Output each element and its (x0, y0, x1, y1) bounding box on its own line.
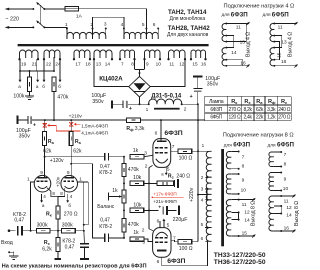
filter choke L1 Д31-5-0,14 (148, 103, 150, 105)
svg-text:14: 14 (231, 50, 237, 56)
cathode wire V1 (47, 188, 58, 197)
wire tap23 down to bus (53, 57, 55, 71)
wire choke to +220 bus (182, 103, 198, 105)
transformer T1 primary winding 1-3 (66, 29, 68, 40)
transformer T1 secondary winding 13-14 (94, 50, 112, 58)
resistor 1k grid stopper top (130, 155, 144, 159)
svg-text:1: 1 (202, 143, 205, 148)
svg-text:10k: 10k (133, 202, 142, 208)
transformer T1 secondary winding 11-12 (169, 50, 186, 58)
svg-text:0,47: 0,47 (100, 218, 110, 224)
wire cap to grid node (21, 230, 36, 232)
svg-text:22k: 22k (256, 115, 264, 121)
svg-text:6Ф3П: 6Ф3П (167, 258, 185, 265)
svg-text:16: 16 (240, 60, 246, 66)
svg-text:7: 7 (173, 236, 176, 242)
fuse FU1 1A (65, 6, 79, 11)
OPT secondary winding 11-15 (226, 200, 231, 236)
OPT secondary winding 9-10 (226, 174, 231, 194)
svg-text:для: для (268, 142, 276, 147)
svg-text:к: к (50, 213, 52, 217)
resistor 470k grid leak bottom (122, 219, 126, 232)
svg-text:2: 2 (142, 228, 145, 234)
svg-text:6: 6 (201, 236, 204, 241)
8ohm diagram for 6F5P winding 9-10 (269, 173, 274, 191)
wire tap22 down (43, 59, 45, 71)
transformer T1 secondary winding 22-24 (44, 50, 60, 58)
svg-text:300k: 300k (37, 222, 48, 228)
svg-text:22: 22 (46, 62, 52, 67)
svg-text:4: 4 (70, 194, 73, 199)
svg-text:11: 11 (242, 202, 247, 208)
svg-text:+17v-6Ф3П: +17v-6Ф3П (153, 192, 177, 197)
svg-text:12: 12 (179, 62, 185, 67)
triode V1 (left triode) anode bar (38, 177, 48, 179)
svg-text:350v: 350v (207, 82, 219, 88)
svg-text:9: 9 (40, 170, 43, 176)
svg-text:6Ф5П: 6Ф5П (272, 11, 289, 18)
svg-text:а: а (42, 203, 45, 208)
svg-text:10k: 10k (133, 175, 142, 181)
svg-text:15: 15 (192, 62, 198, 67)
svg-text:с: с (285, 100, 288, 105)
OPT primary winding sections (206, 151, 211, 177)
coupling capacitor 0,47 К78-2 channel 1 (104, 153, 106, 161)
svg-text:х: х (248, 100, 251, 105)
svg-text:с: с (172, 176, 174, 180)
svg-text:3: 3 (104, 22, 107, 28)
svg-text:+: + (158, 205, 161, 210)
svg-text:0,47: 0,47 (65, 245, 75, 251)
OPT secondary strap 12-14 (238, 212, 240, 219)
resistor Rx 6,2k (57, 231, 59, 238)
heater point arrow a mid (37, 71, 39, 80)
svg-text:17: 17 (75, 62, 81, 67)
svg-text:Выход 8 Ω: Выход 8 Ω (251, 201, 257, 226)
svg-text:470k: 470k (128, 222, 139, 228)
svg-text:4: 4 (201, 198, 204, 203)
svg-text:Вход: Вход (1, 240, 13, 246)
current test mark X1 red (43, 124, 47, 128)
capacitor 100uF 350v (second filter) (197, 77, 199, 88)
pentode V4 pin6 bottom return wire to OPT tap 6 (162, 241, 208, 265)
pentode V3 6Ф3П envelope (top) (153, 139, 171, 168)
svg-text:1A: 1A (76, 14, 83, 20)
capacitor 100uF 350v (first filter) (112, 103, 123, 105)
svg-text:+21v-6Ф5П: +21v-6Ф5П (153, 199, 177, 204)
svg-text:350v: 350v (19, 133, 31, 139)
svg-text:+: + (33, 123, 36, 129)
chassis bar for second 100uF cap (193, 75, 203, 77)
svg-text:270 Ω: 270 Ω (229, 107, 242, 113)
pentode V3 pin 5 heater arrow (165, 167, 167, 173)
svg-text:5: 5 (167, 223, 170, 229)
svg-text:11: 11 (236, 25, 241, 31)
svg-text:220µF: 220µF (173, 217, 188, 223)
svg-text:8: 8 (284, 161, 287, 167)
svg-text:6,2k: 6,2k (42, 246, 52, 252)
svg-text:для: для (263, 12, 271, 17)
capacitor 100uF 350v (after Rf) (18, 119, 28, 121)
resistor Rc 240 with marks (157, 181, 173, 185)
svg-text:1k: 1k (112, 188, 118, 194)
svg-text:5: 5 (167, 166, 170, 172)
heater bus wire (20, 70, 54, 72)
8ohm diagram for 6F5P winding 11-16 (269, 196, 274, 231)
svg-text:6Ф3П: 6Ф3П (210, 107, 222, 113)
svg-text:Выход 4 Ω: Выход 4 Ω (288, 32, 294, 57)
+220 bus vertical (197, 104, 199, 242)
svg-text:3,3k: 3,3k (267, 107, 276, 113)
svg-text:240 Ω: 240 Ω (176, 174, 190, 180)
chassis bar for third 100uF cap (17, 116, 19, 124)
svg-text:270 Ω: 270 Ω (278, 115, 291, 121)
resistor Ra2 62k (70, 120, 72, 132)
pentode V4 6Ф3П envelope (bottom) (153, 228, 171, 258)
svg-text:12: 12 (286, 205, 292, 211)
svg-text:б: б (58, 84, 61, 89)
pentode V4 grid dashes (155, 237, 158, 239)
svg-text:12: 12 (244, 210, 250, 216)
transformer T1 secondary winding 7-8 (120, 50, 135, 58)
svg-text:7: 7 (284, 152, 287, 158)
svg-text:9: 9 (284, 176, 287, 182)
svg-text:16: 16 (281, 59, 287, 65)
red current arrow path to X1 (49, 124, 56, 126)
transformer T1 primary taps dots (66, 28, 68, 30)
svg-text:10: 10 (156, 62, 162, 67)
svg-text:9: 9 (146, 62, 149, 67)
pentode V3 cathode arc (156, 159, 168, 163)
svg-text:2: 2 (201, 175, 204, 180)
4ohm diagram for 6F5P (270, 24, 274, 42)
pentode V3 pin6 wire to rail (160, 120, 162, 141)
pentode V4 pin7 and 100ohm anode resistor (171, 240, 178, 242)
transformer T1 primary winding 4-6 (123, 29, 125, 40)
pentode V3 screen and grid dashes (155, 147, 158, 149)
svg-text:62k: 62k (73, 148, 82, 154)
svg-text:б: б (42, 84, 45, 89)
resistor 300k second (62, 229, 76, 233)
svg-text:14: 14 (105, 62, 111, 67)
svg-text:11: 11 (169, 62, 174, 67)
svg-text:13: 13 (240, 40, 246, 46)
svg-text:8: 8 (52, 191, 55, 196)
wire tap12 to bridge right (150, 59, 185, 86)
transformer T1 secondary winding 15-16 (191, 50, 206, 58)
svg-text:62k: 62k (256, 107, 264, 113)
svg-text:19: 19 (21, 62, 27, 67)
svg-text:1,5mA-6Ф3П: 1,5mA-6Ф3П (81, 123, 108, 128)
input capacitor К78-2 0,47 (17, 226, 19, 236)
resistor 10k upper (130, 181, 144, 185)
svg-text:18: 18 (85, 62, 91, 67)
svg-text:1,2k: 1,2k (267, 115, 276, 121)
svg-text:14: 14 (244, 218, 250, 224)
svg-text:10: 10 (241, 188, 247, 194)
svg-text:х: х (48, 242, 51, 246)
4ohm diagram for 6F3P (222, 24, 226, 42)
grid wire V2 up (77, 182, 83, 231)
resistor 300k first (37, 229, 51, 233)
svg-text:16: 16 (201, 62, 207, 67)
wire tap13 to bridge (94, 59, 129, 86)
svg-text:15: 15 (242, 231, 248, 237)
transformer T1 secondary winding 19-21 (20, 50, 39, 58)
wire Ra1 to triode V1 anode (44, 146, 46, 178)
ground below 100k (29, 91, 31, 95)
svg-text:2: 2 (145, 164, 148, 170)
svg-text:10: 10 (283, 186, 289, 192)
transformer T1 core bar (18, 44, 209, 46)
pentode V4 pin6 top stub (159, 221, 161, 228)
svg-text:+20v: +20v (56, 176, 61, 187)
svg-text:120 Ω: 120 Ω (229, 115, 242, 121)
svg-text:9: 9 (67, 170, 70, 176)
resistor 470k grid leak top (123, 157, 125, 164)
svg-text:4: 4 (121, 22, 124, 28)
svg-text:11: 11 (278, 25, 283, 31)
pentode V4 pin5 heater arrow up (163, 220, 165, 227)
wire cap to bridge node (128, 103, 149, 105)
svg-text:+220v: +220v (189, 187, 195, 202)
grid wire V1 up (31, 182, 35, 231)
svg-text:7: 7 (172, 144, 175, 150)
wire Rf to +220 bus (141, 119, 205, 121)
svg-text:Д31-5-0,14: Д31-5-0,14 (151, 93, 182, 99)
svg-text:470k: 470k (57, 95, 68, 101)
triode V1 (left triode) cathode arc (38, 186, 47, 188)
svg-text:3: 3 (144, 151, 147, 157)
svg-text:1k: 1k (133, 230, 139, 236)
center node dot (50, 230, 62, 232)
svg-text:2: 2 (184, 106, 187, 112)
svg-text:4,1mA-6Ф5П: 4,1mA-6Ф5П (81, 130, 108, 135)
svg-text:1k: 1k (133, 148, 139, 154)
mains wire bottom with arrow (8, 26, 33, 28)
pentode V4 anode bar (157, 250, 167, 252)
svg-text:Выход 4 Ω: Выход 4 Ω (246, 32, 252, 57)
transformer T1 secondary winding 9-10 (145, 50, 161, 58)
svg-text:7: 7 (242, 154, 245, 160)
svg-text:а: а (18, 84, 21, 89)
svg-text:а: а (79, 141, 82, 145)
grid network second wire (84, 181, 88, 183)
chassis bar for first 100uF cap (111, 100, 113, 108)
svg-text:13: 13 (96, 62, 102, 67)
svg-text:Выход 8 Ω: Выход 8 Ω (294, 201, 300, 226)
svg-text:7: 7 (121, 62, 124, 67)
svg-text:6Ф5П: 6Ф5П (210, 115, 222, 121)
svg-text:5: 5 (201, 222, 204, 227)
pentode V3 pin7 and 100ohm anode resistor (171, 150, 179, 152)
svg-text:а: а (161, 172, 164, 177)
balance pot 1k (122, 190, 126, 203)
triode V1 (left triode) heater pin 4 arrow (41, 194, 43, 201)
signal wire channel 2 down (71, 164, 105, 238)
svg-text:300k: 300k (62, 222, 73, 228)
node to V2 grid (75, 230, 84, 232)
OPT secondary winding 7-8 (226, 152, 231, 169)
svg-text:15: 15 (277, 52, 283, 58)
red voltage label +17v (152, 197, 154, 199)
resistor 100k heater divider (29, 71, 31, 77)
bridge rectifier VD1 КЦ402А (129, 76, 151, 97)
wire +220 to OPT center taps (198, 194, 207, 196)
svg-text:для: для (222, 12, 230, 17)
svg-text:6Ф3П: 6Ф3П (164, 130, 182, 137)
svg-text:Баланс: Баланс (97, 204, 115, 210)
triode V2 (right triode) grid dashes (63, 180, 66, 182)
svg-text:к: к (235, 100, 237, 105)
triode V2 (right triode) heater pin 4 arrow (67, 194, 69, 201)
mains wire top with arrow (8, 8, 33, 10)
triode V1 (left triode) envelope (34, 175, 51, 192)
svg-text:13: 13 (281, 40, 287, 46)
svg-text:3: 3 (201, 187, 204, 192)
svg-text:Лампа: Лампа (209, 99, 224, 105)
chassis bar below Rx (54, 258, 61, 260)
svg-text:ТН36-127/220-50: ТН36-127/220-50 (214, 259, 266, 266)
wire switch to fuse (44, 8, 65, 10)
svg-text:Подключение нагрузки 4 Ω: Подключение нагрузки 4 Ω (224, 3, 295, 9)
cathode wire V2 (58, 188, 65, 197)
svg-text:б: б (68, 203, 71, 208)
signal wire channel 1 to coupling cap (45, 156, 105, 158)
svg-text:6: 6 (157, 219, 160, 225)
svg-text:1: 1 (79, 176, 82, 182)
wire switch to transformer tap 1 (44, 27, 67, 28)
svg-text:3,3k: 3,3k (135, 126, 145, 132)
svg-text:для: для (224, 142, 232, 147)
input ground (8, 251, 10, 253)
svg-text:270 Ω: 270 Ω (64, 211, 78, 217)
svg-text:Подключение нагрузки 8 Ω: Подключение нагрузки 8 Ω (223, 132, 294, 138)
svg-text:К78-2: К78-2 (99, 224, 112, 230)
svg-text:6Ф5П: 6Ф5П (277, 142, 294, 149)
svg-text:1: 1 (146, 107, 149, 113)
resistor 1k grid stopper bottom (130, 237, 144, 241)
current test mark X2 red (69, 122, 73, 126)
svg-text:6Ф3П: 6Ф3П (233, 142, 250, 149)
wire fuse to transformer tap 5 (79, 9, 147, 29)
transformer T1 secondary winding 17-18 (74, 50, 90, 58)
svg-text:1: 1 (65, 22, 68, 28)
svg-text:11: 11 (284, 198, 289, 204)
svg-text:а: а (52, 141, 55, 145)
triode V2 (right triode) cathode arc (65, 186, 74, 188)
svg-text:6Ф3П: 6Ф3П (231, 11, 248, 18)
svg-text:9: 9 (242, 178, 245, 184)
heater point arrow b mid (43, 71, 45, 80)
resistor Rf 3,3k in rail (126, 118, 140, 122)
svg-text:На схеме указаны номиналы рези: На схеме указаны номиналы резисторов для… (2, 264, 147, 270)
red current arrow to X2 (76, 123, 81, 125)
svg-text:100 Ω: 100 Ω (179, 155, 193, 161)
svg-text:а: а (36, 84, 39, 89)
wire Ra2 to triode V2 anode (70, 146, 72, 178)
wire tap21 down (36, 59, 38, 71)
OPT core bar (221, 149, 224, 246)
svg-text:а: а (260, 100, 263, 105)
svg-text:6: 6 (157, 259, 160, 265)
heater point arrow b right (59, 59, 61, 75)
svg-text:1: 1 (27, 176, 30, 182)
svg-text:КЦ402А: КЦ402А (99, 76, 123, 83)
resistor Ra1 62k (44, 120, 46, 132)
junction dot Ra2 branch (70, 119, 72, 121)
svg-text:8: 8 (131, 62, 134, 67)
svg-text:8: 8 (242, 164, 245, 170)
OPT primary tap stubs and labels (205, 150, 211, 152)
wire 470k to +210 rail (53, 91, 55, 120)
svg-text:4: 4 (43, 194, 46, 199)
svg-text:14: 14 (286, 213, 292, 219)
+210v rail wire (32, 119, 126, 121)
junction dot Ra1 branch (44, 119, 46, 121)
heater point arrow a left (19, 71, 21, 80)
svg-text:6: 6 (153, 22, 156, 28)
resistor 10k lower (130, 208, 144, 212)
svg-text:8,2k: 8,2k (243, 107, 252, 113)
cap plate and chassis after Rc (172, 182, 175, 184)
svg-text:470k: 470k (128, 167, 139, 173)
svg-text:+: + (190, 94, 193, 100)
svg-text:5: 5 (142, 22, 145, 28)
svg-text:0,47: 0,47 (14, 217, 24, 223)
svg-text:К78-2: К78-2 (99, 170, 112, 176)
svg-text:16: 16 (284, 226, 290, 232)
svg-text:Для моноблока: Для моноблока (170, 16, 206, 22)
triode V2 (right triode) anode bar (64, 177, 74, 179)
strap wire taps 2-4 (93, 17, 124, 28)
pentode V4 cathode arc (156, 232, 168, 236)
pentode V3 anode bar (157, 140, 167, 142)
svg-text:100 Ω: 100 Ω (179, 246, 193, 252)
svg-text:ф: ф (272, 100, 276, 105)
input terminal (8, 229, 11, 232)
svg-text:2,4k: 2,4k (243, 115, 252, 121)
junction dot 470k branch (53, 119, 55, 121)
triode V1 (left triode) grid dashes (37, 180, 40, 182)
table tube values (205, 95, 292, 97)
common cathode line between output tubes (148, 168, 150, 229)
svg-text:+120v: +120v (50, 158, 64, 164)
resistor Rk 270 (57, 197, 59, 206)
triode V2 (right triode) envelope (61, 175, 78, 192)
wire tap19 down (19, 59, 21, 71)
svg-text:+: + (129, 106, 132, 112)
svg-text:8: 8 (60, 191, 63, 196)
svg-text:350v: 350v (92, 99, 104, 105)
svg-text:6: 6 (155, 130, 158, 136)
wire bridge bottom to DC rail (139, 97, 141, 104)
power switch SA1 (double pole) (32, 8, 34, 10)
svg-text:3: 3 (142, 240, 145, 246)
svg-text:+210v: +210v (69, 114, 83, 120)
8ohm diagram for 6F5P winding 7-8 (269, 152, 274, 167)
resistor 470k heater divider (52, 77, 56, 91)
svg-text:240 Ω: 240 Ω (278, 107, 291, 113)
svg-text:Для двух каналов: Для двух каналов (167, 32, 209, 38)
svg-text:2: 2 (90, 22, 93, 28)
svg-text:100k: 100k (13, 94, 24, 100)
coupling capacitor 0,47 К78-2 channel 2 (104, 234, 106, 242)
svg-text:ф: ф (130, 128, 134, 132)
svg-text:ТН33-127/220-50: ТН33-127/220-50 (214, 252, 266, 259)
OPT primary strap 3-4 (206, 189, 208, 200)
capacitor К78-2 0,47 grid bypass (83, 231, 86, 244)
